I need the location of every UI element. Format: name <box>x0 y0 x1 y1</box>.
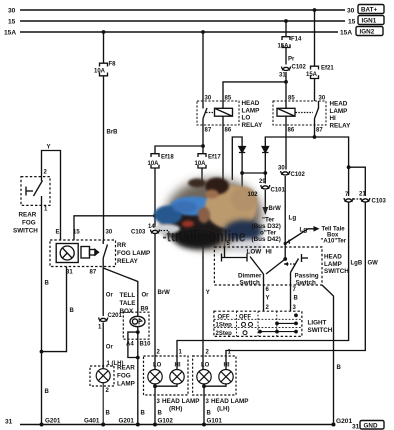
photo shirt tan <box>205 185 257 229</box>
GND box <box>336 418 384 430</box>
wire relay 31 to B join <box>42 267 67 352</box>
svg-text:31: 31 <box>66 270 73 276</box>
photo hair <box>205 178 229 195</box>
svg-text:SWITCH: SWITCH <box>324 268 349 275</box>
photo car blue dark <box>154 206 182 225</box>
wire branch to Ef18 <box>155 146 203 154</box>
svg-text:HI: HI <box>330 115 337 122</box>
relay box LO <box>197 101 239 125</box>
wire B9 through indicator <box>128 317 138 425</box>
wire rear fog switch 1 to ground <box>41 205 43 424</box>
Lg branch arrow <box>285 229 313 244</box>
svg-text:14: 14 <box>148 224 155 230</box>
wire diode loop top <box>232 137 242 180</box>
wire Y loop switch to relay E <box>42 151 61 241</box>
svg-text:IGN2: IGN2 <box>360 29 375 36</box>
svg-text:LO: LO <box>201 363 210 369</box>
svg-text:GW: GW <box>368 261 379 267</box>
ground bus 31 <box>20 424 334 426</box>
svg-text:Y: Y <box>206 290 210 296</box>
svg-text:B: B <box>294 296 299 302</box>
svg-text:RELAY: RELAY <box>242 122 264 129</box>
wire LO 86 down to dimmer pin 5 <box>222 125 224 190</box>
svg-text:IGN1: IGN1 <box>362 18 377 25</box>
photo face <box>206 190 219 199</box>
junction dots left <box>40 214 157 354</box>
connector C102 pin 31 <box>282 67 291 71</box>
svg-text:31: 31 <box>352 424 360 430</box>
svg-text:30: 30 <box>347 8 355 15</box>
svg-text:3: 3 <box>206 399 210 405</box>
wire branch to LO relay 85 <box>223 82 286 101</box>
svg-text:C102: C102 <box>292 65 307 71</box>
svg-text:30: 30 <box>8 8 16 15</box>
bus 30 <box>20 9 345 11</box>
tell tale dashed box <box>123 312 149 339</box>
fuse F8 10A <box>100 63 108 76</box>
svg-text:30: 30 <box>278 166 285 172</box>
svg-text:15A: 15A <box>306 72 318 78</box>
svg-text:2: 2 <box>157 350 161 356</box>
fuse F14 15A <box>282 37 290 48</box>
svg-text:29: 29 <box>259 179 266 185</box>
svg-text:B: B <box>158 411 163 417</box>
wire F14 to C102-31 <box>285 48 287 65</box>
lamp symbol in relay <box>56 244 78 263</box>
switch ground diagonal <box>322 285 334 425</box>
svg-text:LO: LO <box>242 115 251 122</box>
wire C102-31 to junction <box>285 72 287 101</box>
switch box <box>214 247 322 285</box>
connector C103 pin 7 <box>344 198 353 202</box>
photo black bottom <box>175 229 221 249</box>
svg-text:B: B <box>45 281 50 287</box>
svg-text:BOX: BOX <box>120 308 134 315</box>
wire C103 link 7-21 <box>349 167 366 196</box>
svg-text:Or: Or <box>106 293 114 299</box>
diode D2 <box>262 147 268 153</box>
svg-text:FOG LAMP: FOG LAMP <box>117 250 150 257</box>
svg-text:85: 85 <box>288 96 295 102</box>
svg-text:15A: 15A <box>340 30 352 37</box>
svg-text:SWITCH: SWITCH <box>13 228 38 235</box>
dimmer LOW contact <box>222 247 248 262</box>
wire D1 to junction <box>241 153 243 191</box>
svg-text:2Step: 2Step <box>216 331 233 337</box>
svg-text:B10: B10 <box>140 342 152 348</box>
svg-text:SWITCH: SWITCH <box>308 327 333 334</box>
HI relay coil <box>277 101 295 125</box>
svg-text:102: 102 <box>248 192 259 198</box>
photo tail lamp red <box>182 221 194 228</box>
svg-text:30: 30 <box>106 230 113 236</box>
indicator lamp <box>130 316 145 326</box>
svg-text:C103: C103 <box>372 199 387 205</box>
svg-text:FOG: FOG <box>117 373 131 380</box>
wire HI 87 right to C103-7 <box>315 137 349 196</box>
lamp LO RH <box>148 370 162 384</box>
connector C103 pin 21 <box>354 198 370 202</box>
svg-text:B: B <box>70 308 75 314</box>
photo engine dark <box>161 204 229 244</box>
svg-text:OFF: OFF <box>218 314 230 320</box>
svg-text:2: 2 <box>44 170 48 176</box>
diode D1 <box>239 147 245 153</box>
svg-text:FOG: FOG <box>22 220 36 227</box>
wire F8 drop from 15A bus <box>103 32 105 63</box>
svg-text:E: E <box>56 230 60 236</box>
svg-text:86: 86 <box>288 128 295 134</box>
svg-text:Switch: Switch <box>240 280 260 287</box>
svg-text:15A: 15A <box>278 44 290 50</box>
photo blue detail <box>173 201 197 213</box>
connector C102 pin 30 <box>281 171 290 175</box>
wire relay 87 straight down Or <box>102 267 104 317</box>
svg-text:(LH): (LH) <box>217 406 230 413</box>
bus 15A <box>20 31 338 33</box>
svg-text:HEAD: HEAD <box>242 100 260 107</box>
svg-text:Or: Or <box>106 345 114 351</box>
fuse Ef18 10A <box>151 154 159 168</box>
svg-text:B: B <box>106 411 111 417</box>
photo sill white <box>154 224 180 234</box>
svg-text:15A: 15A <box>4 30 16 37</box>
svg-text:-tutalleronline: -tutalleronline <box>163 227 246 245</box>
svg-text:1Step: 1Step <box>216 323 233 329</box>
svg-text:1: 1 <box>44 207 48 213</box>
wire HI 86 down (Lg) to passing pin 4 <box>285 125 287 170</box>
svg-text:(Bus D42): (Bus D42) <box>252 236 281 243</box>
svg-text:Switch: Switch <box>296 280 316 287</box>
lamp box RH <box>144 356 189 395</box>
svg-text:31: 31 <box>5 419 13 426</box>
wire junction bar <box>242 172 265 174</box>
svg-text:(RH): (RH) <box>169 406 182 413</box>
wire lamp bottoms join <box>204 384 226 425</box>
relay box <box>50 240 116 267</box>
LO relay coil <box>215 101 233 125</box>
svg-text:C103: C103 <box>131 230 146 236</box>
row separators <box>214 318 302 320</box>
svg-text:Dimmer: Dimmer <box>238 273 262 280</box>
svg-text:TALE: TALE <box>120 300 136 307</box>
svg-text:C102: C102 <box>291 172 306 178</box>
HI relay switch contact <box>296 101 319 125</box>
wire D2 to C101-29 <box>264 153 266 184</box>
svg-text:1: 1 <box>98 325 102 331</box>
svg-text:RELAY: RELAY <box>117 258 139 265</box>
ground bus junction dots <box>40 423 336 427</box>
wire Ef17 down (Y) to LH lamp LO <box>201 168 203 247</box>
svg-text:G201: G201 <box>336 418 352 425</box>
svg-text:Lg: Lg <box>300 227 308 234</box>
wire C101-29 to BrW arrow <box>264 190 266 207</box>
photo navy trousers <box>224 220 262 242</box>
svg-text:G101: G101 <box>207 418 223 425</box>
svg-text:TELL: TELL <box>120 292 136 299</box>
svg-text:Ef21: Ef21 <box>321 66 334 72</box>
connector C101 pin 29 <box>261 185 270 189</box>
svg-text:15: 15 <box>73 230 80 236</box>
svg-text:LAMP: LAMP <box>324 261 342 268</box>
svg-text:LIGHT: LIGHT <box>308 320 327 327</box>
wire BrB F8 to fog relay 30 <box>103 76 105 240</box>
svg-text:3: 3 <box>293 305 297 311</box>
lamp LO LH <box>197 370 211 384</box>
svg-text:HEAD LAMP: HEAD LAMP <box>162 398 199 405</box>
svg-text:G201: G201 <box>119 418 135 425</box>
svg-text:6: 6 <box>266 287 270 293</box>
fuse Ef17 10A <box>198 154 206 168</box>
lamp HI LH <box>219 370 233 384</box>
svg-text:Pr: Pr <box>288 57 295 63</box>
svg-text:BrW: BrW <box>158 290 171 296</box>
svg-text:Or: Or <box>142 293 150 299</box>
svg-text:Passing: Passing <box>295 273 319 280</box>
svg-text:HI: HI <box>224 363 230 369</box>
svg-text:15: 15 <box>348 19 356 26</box>
connector C201 pin 1 <box>99 318 108 322</box>
junction dots top <box>102 8 317 84</box>
bus labels right and terminal boxes <box>340 8 356 37</box>
svg-text:B: B <box>141 411 146 417</box>
lamp HI RH <box>170 370 184 384</box>
BrW destination labels <box>248 192 282 243</box>
photo arm <box>198 207 210 223</box>
svg-text:Y: Y <box>47 145 51 151</box>
dimmer HI contact and arm <box>250 257 285 312</box>
svg-text:86: 86 <box>225 128 232 134</box>
svg-text:Y: Y <box>266 296 270 302</box>
IGN2 box <box>356 27 383 36</box>
svg-text:G201: G201 <box>45 418 61 425</box>
IGN1 box <box>358 16 384 25</box>
wire Ef18 to C103-14 and down (BrW) to RH lamp LO <box>154 168 156 228</box>
svg-text:G401: G401 <box>84 418 100 425</box>
svg-text:"A10"Ter: "A10"Ter <box>321 239 347 245</box>
photo tool arm <box>188 179 206 188</box>
svg-text:LAMP: LAMP <box>242 107 260 114</box>
svg-text:87: 87 <box>316 128 323 134</box>
bus labels left <box>4 8 16 426</box>
wire LO 87 down to fuse split <box>202 125 204 154</box>
BrW arrow head <box>262 207 268 215</box>
relay switch contact <box>103 240 107 267</box>
svg-text:87: 87 <box>205 128 212 134</box>
svg-text:10A: 10A <box>94 69 106 75</box>
svg-text:7: 7 <box>293 287 297 293</box>
svg-text:3: 3 <box>157 399 161 405</box>
svg-text:87: 87 <box>90 270 97 276</box>
bus 15 <box>20 20 345 22</box>
BAT+ box <box>358 5 384 14</box>
svg-text:2: 2 <box>106 388 110 394</box>
svg-text:HEAD: HEAD <box>330 101 348 108</box>
svg-text:Ef17: Ef17 <box>208 155 221 161</box>
svg-text:2: 2 <box>206 350 210 356</box>
LO relay switch contact <box>203 101 213 125</box>
svg-text:B: B <box>207 411 212 417</box>
photo shoulder <box>231 187 257 211</box>
lamp box LH <box>193 356 236 395</box>
passing switch contact <box>284 254 308 311</box>
wire Ef21 drop from 30 bus <box>314 10 316 66</box>
wire lamp bottoms join <box>155 384 177 425</box>
svg-text:LO: LO <box>153 363 162 369</box>
svg-text:BrW: BrW <box>269 206 282 212</box>
svg-text:BrB: BrB <box>107 130 119 136</box>
relay label LO <box>242 100 264 129</box>
svg-text:31: 31 <box>279 73 286 79</box>
relay box HI <box>273 101 326 125</box>
svg-text:F8: F8 <box>109 62 117 68</box>
svg-text:BAT+: BAT+ <box>361 7 377 14</box>
svg-text:RELAY: RELAY <box>330 122 352 129</box>
wire fog horizontal 87-15 <box>74 216 155 240</box>
svg-text:GND: GND <box>364 423 378 430</box>
svg-text:B: B <box>337 365 342 371</box>
wire lamp to ground <box>102 383 104 425</box>
svg-text:Ef18: Ef18 <box>161 155 174 161</box>
photo light cloth <box>229 240 263 253</box>
fuse Ef21 15A <box>311 66 319 78</box>
switch contact <box>26 177 43 206</box>
light switch box <box>214 311 302 336</box>
svg-text:HEAD: HEAD <box>324 254 342 261</box>
svg-text:2: 2 <box>266 305 270 311</box>
relay label HI <box>330 101 352 130</box>
svg-text:Lg: Lg <box>289 215 297 222</box>
svg-text:15: 15 <box>8 19 16 26</box>
photo base <box>166 179 262 249</box>
junction dots middle <box>201 135 350 175</box>
wire C103-21 down GW to LH HI <box>226 203 365 370</box>
svg-text:HI: HI <box>175 363 181 369</box>
svg-text:LOW: LOW <box>247 249 262 256</box>
wire C103-7 down LgB to RH HI <box>177 203 349 370</box>
svg-text:REAR: REAR <box>19 212 37 219</box>
wire B10 to ground <box>137 358 139 425</box>
switch box <box>21 177 50 206</box>
svg-text:HI: HI <box>266 249 273 256</box>
svg-text:REAR: REAR <box>117 365 135 372</box>
photo car blue <box>170 197 216 216</box>
svg-text:30: 30 <box>205 96 212 102</box>
svg-text:LgB: LgB <box>351 261 363 267</box>
svg-text:C101: C101 <box>271 188 286 194</box>
svg-text:F14: F14 <box>291 37 302 43</box>
svg-text:21: 21 <box>359 192 366 198</box>
svg-text:A4: A4 <box>126 342 134 348</box>
svg-text:RR: RR <box>117 242 127 249</box>
svg-text:LAMP: LAMP <box>117 381 135 388</box>
svg-text:10A: 10A <box>148 161 160 167</box>
svg-text:10A: 10A <box>195 161 207 167</box>
wire HI87 horizontal to diode D2 <box>265 125 314 146</box>
connector C103 pin 14 <box>151 230 169 234</box>
svg-text:G102: G102 <box>158 418 174 425</box>
svg-text:B: B <box>45 389 50 395</box>
svg-text:30: 30 <box>319 96 326 102</box>
lamp symbol <box>96 369 110 383</box>
svg-text:LAMP: LAMP <box>330 108 348 115</box>
svg-text:OFF: OFF <box>239 314 251 320</box>
svg-text:HEAD LAMP: HEAD LAMP <box>211 398 248 405</box>
contact dots <box>258 313 298 333</box>
lamp box <box>90 366 114 386</box>
svg-text:85: 85 <box>225 96 232 102</box>
wire relay 87 diagonal to tell tale B9 <box>103 268 138 317</box>
svg-text:1: 1 <box>179 350 183 356</box>
wire Ef21 to HI relay 30 <box>314 79 316 102</box>
coil element <box>81 247 99 259</box>
wire F14 drop from 15 bus <box>285 21 287 37</box>
wire indicator to A4/B10 loop <box>137 327 139 358</box>
wire LO relay 30 drop from 15A bus <box>202 32 204 101</box>
